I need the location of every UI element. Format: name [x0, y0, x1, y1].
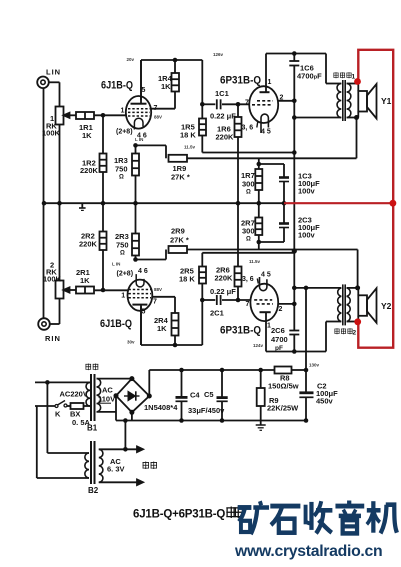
svg-text:300: 300	[242, 180, 255, 189]
svg-text:(2+8): (2+8)	[116, 129, 133, 136]
svg-text:3, 6: 3, 6	[242, 276, 254, 283]
svg-text:220K: 220K	[215, 274, 234, 283]
svg-text:AC220V: AC220V	[60, 390, 88, 399]
svg-text:100K: 100K	[42, 129, 61, 138]
svg-text:1K: 1K	[82, 131, 92, 140]
svg-text:7: 7	[154, 105, 158, 112]
svg-text:5: 5	[142, 309, 146, 316]
svg-text:6J1B-Q: 6J1B-Q	[101, 80, 133, 92]
svg-text:220K: 220K	[79, 240, 98, 249]
svg-text:0.22 μF: 0.22 μF	[210, 287, 236, 296]
svg-text:1: 1	[352, 73, 356, 80]
svg-text:2C6: 2C6	[271, 326, 285, 335]
svg-text:(2+8): (2+8)	[117, 271, 134, 278]
svg-text:20v: 20v	[127, 57, 135, 62]
svg-text:C5: C5	[204, 390, 214, 399]
svg-text:4700: 4700	[271, 335, 288, 344]
svg-text:1: 1	[121, 108, 125, 115]
svg-text:7: 7	[246, 301, 250, 308]
svg-text:Ω: Ω	[246, 190, 251, 196]
svg-text:1N5408*4: 1N5408*4	[144, 403, 178, 412]
svg-text:30v: 30v	[127, 340, 135, 345]
svg-text:22K/25W: 22K/25W	[267, 404, 299, 413]
svg-text:www.crystalradio.cn: www.crystalradio.cn	[234, 543, 382, 560]
svg-text:33μF/450v: 33μF/450v	[188, 406, 225, 415]
svg-text:B1: B1	[87, 424, 98, 433]
svg-text:750: 750	[115, 165, 128, 174]
svg-text:27K *: 27K *	[170, 236, 189, 245]
svg-text:4700pF: 4700pF	[297, 72, 322, 81]
svg-text:Y2: Y2	[381, 301, 392, 311]
svg-text:110V: 110V	[98, 395, 115, 404]
svg-text:450v: 450v	[316, 397, 334, 406]
svg-text:4 5: 4 5	[261, 272, 271, 279]
svg-text:AC: AC	[102, 386, 113, 395]
svg-text:C4: C4	[190, 391, 200, 400]
svg-text:1K: 1K	[80, 276, 90, 285]
svg-text:2C1: 2C1	[210, 309, 224, 318]
svg-text:7: 7	[153, 299, 157, 306]
svg-text:100K: 100K	[43, 275, 62, 284]
svg-text:2: 2	[279, 306, 283, 313]
svg-text:11.5v: 11.5v	[249, 259, 261, 264]
svg-text:220K: 220K	[80, 166, 99, 175]
svg-text:pF: pF	[275, 345, 283, 352]
svg-text:3, 6: 3, 6	[242, 125, 254, 132]
svg-text:100v: 100v	[298, 187, 316, 196]
svg-text:7: 7	[245, 100, 249, 107]
svg-text:1K: 1K	[157, 324, 167, 333]
svg-text:B2: B2	[88, 486, 99, 495]
svg-text:11.5v: 11.5v	[184, 145, 196, 150]
svg-text:6J1B-Q+6P31B-Q: 6J1B-Q+6P31B-Q	[133, 509, 225, 521]
svg-text:1: 1	[267, 323, 271, 330]
svg-text:4 6: 4 6	[138, 268, 148, 275]
svg-text:124v: 124v	[253, 343, 264, 348]
svg-text:RIN: RIN	[45, 334, 61, 343]
svg-text:5: 5	[142, 87, 146, 94]
svg-text:2: 2	[353, 329, 357, 336]
svg-text:1C1: 1C1	[215, 89, 229, 98]
svg-text:0.22 μF: 0.22 μF	[210, 112, 236, 121]
svg-text:150Ω/5w: 150Ω/5w	[268, 382, 299, 391]
svg-text:6P31B-Q: 6P31B-Q	[220, 325, 261, 337]
svg-text:100v: 100v	[298, 231, 316, 240]
svg-text:6. 3V: 6. 3V	[107, 465, 125, 474]
svg-text:Ω: Ω	[246, 237, 251, 243]
svg-text:L IN: L IN	[112, 262, 120, 267]
svg-text:1: 1	[121, 293, 125, 300]
svg-text:300: 300	[242, 227, 255, 236]
svg-text:220K: 220K	[216, 133, 235, 142]
svg-text:2: 2	[280, 95, 284, 102]
svg-text:1K: 1K	[161, 82, 171, 91]
svg-text:27K *: 27K *	[171, 173, 190, 182]
svg-text:Ω: Ω	[120, 251, 125, 257]
svg-text:4 5: 4 5	[261, 129, 271, 136]
svg-text:18 K: 18 K	[179, 275, 195, 284]
svg-text:18 K: 18 K	[180, 131, 196, 140]
svg-text:K: K	[55, 410, 61, 419]
svg-text:750: 750	[116, 241, 129, 250]
svg-text:126v: 126v	[213, 52, 224, 57]
svg-text:L IN: L IN	[135, 137, 143, 142]
svg-text:88V: 88V	[154, 287, 162, 292]
svg-text:Y1: Y1	[381, 96, 392, 106]
svg-text:130v: 130v	[309, 363, 320, 368]
svg-text:LIN: LIN	[46, 68, 61, 77]
svg-text:1: 1	[268, 79, 272, 86]
svg-text:88V: 88V	[154, 115, 162, 120]
svg-text:6J1B-Q: 6J1B-Q	[100, 318, 132, 330]
svg-text:2R9: 2R9	[171, 227, 185, 236]
svg-text:6P31B-Q: 6P31B-Q	[220, 75, 261, 87]
svg-text:Ω: Ω	[119, 175, 124, 181]
